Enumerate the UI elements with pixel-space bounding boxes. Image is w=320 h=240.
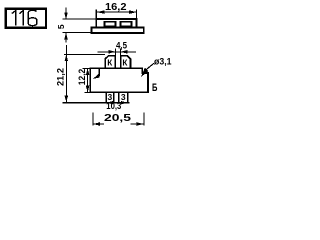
top view: slot 2 (121, 22, 132, 26)
top view: dimension 5 arrowheads (64, 13, 68, 20)
front view: body outline (90, 68, 148, 92)
svg-text:20,5: 20,5 (104, 112, 131, 124)
svg-text:ø3,1: ø3,1 (154, 56, 172, 66)
svg-text:4,5: 4,5 (116, 41, 127, 51)
front view: right foot (119, 92, 128, 102)
front view: right plunger (121, 56, 131, 68)
svg-text:16,2: 16,2 (105, 2, 127, 13)
svg-text:3: 3 (121, 92, 126, 102)
svg-text:5: 5 (56, 24, 66, 29)
svg-text:К: К (107, 58, 112, 67)
top view: dimension 16,2 line (96, 10, 136, 20)
front view: dimension 4,5 arrowheads (109, 50, 116, 54)
top view: dimension 16,2 arrowheads (97, 10, 105, 14)
top view: dimension 5 extension lines (63, 8, 96, 43)
top view: flange (92, 27, 144, 33)
front view: dimension 12,2 (83, 68, 91, 92)
front view: hole leader arrowhead (141, 68, 149, 77)
front view: hole leader line (147, 63, 154, 69)
top view: upper body (96, 19, 136, 27)
top view: slot 1 (105, 22, 116, 26)
front view: internal arrow feature (98, 68, 100, 76)
figure number box 116 (6, 9, 46, 28)
svg-text:21,2: 21,2 (56, 68, 66, 86)
front view: dimension 20,5 (93, 113, 144, 126)
front view: left foot (106, 92, 113, 102)
svg-text:10,3: 10,3 (106, 101, 121, 112)
front view: dimension 21,2 (64, 45, 105, 102)
front view: feet bottom / dimension 10,3 line (63, 102, 130, 104)
svg-text:12,2: 12,2 (77, 69, 87, 86)
front view: dimension 4,5 line (98, 49, 137, 56)
svg-text:Б: Б (152, 82, 157, 94)
front view: left plunger (105, 56, 115, 68)
svg-text:К: К (122, 58, 127, 67)
